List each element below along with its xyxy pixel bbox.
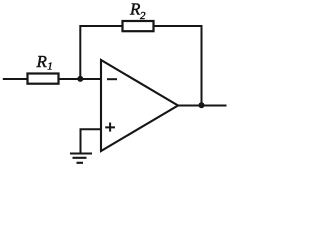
node: output junction [199, 102, 205, 108]
wire: feedback riser from node up to top rail [80, 26, 122, 79]
wire: R2 to right corner and down to output node [154, 26, 202, 105]
ground [70, 154, 92, 163]
svg-text:1: 1 [47, 61, 53, 73]
op-amp U1 [101, 60, 178, 151]
label R2 [129, 0, 146, 22]
resistor R2 [123, 21, 154, 31]
wire: input lead to R1 [3, 78, 28, 80]
wire: op-amp output [178, 105, 227, 107]
svg-text:R: R [36, 52, 48, 71]
wire: non-inverting input to ground stem [81, 129, 102, 153]
label: op-amp non-inverting input "+" [105, 123, 115, 132]
label: op-amp inverting input "−" [107, 78, 117, 80]
resistor R1 [28, 74, 59, 84]
svg-text:2: 2 [140, 10, 146, 22]
node: inverting input junction [77, 76, 83, 82]
wire: R1 to inverting-input node [59, 78, 102, 80]
label R1 [36, 52, 53, 73]
